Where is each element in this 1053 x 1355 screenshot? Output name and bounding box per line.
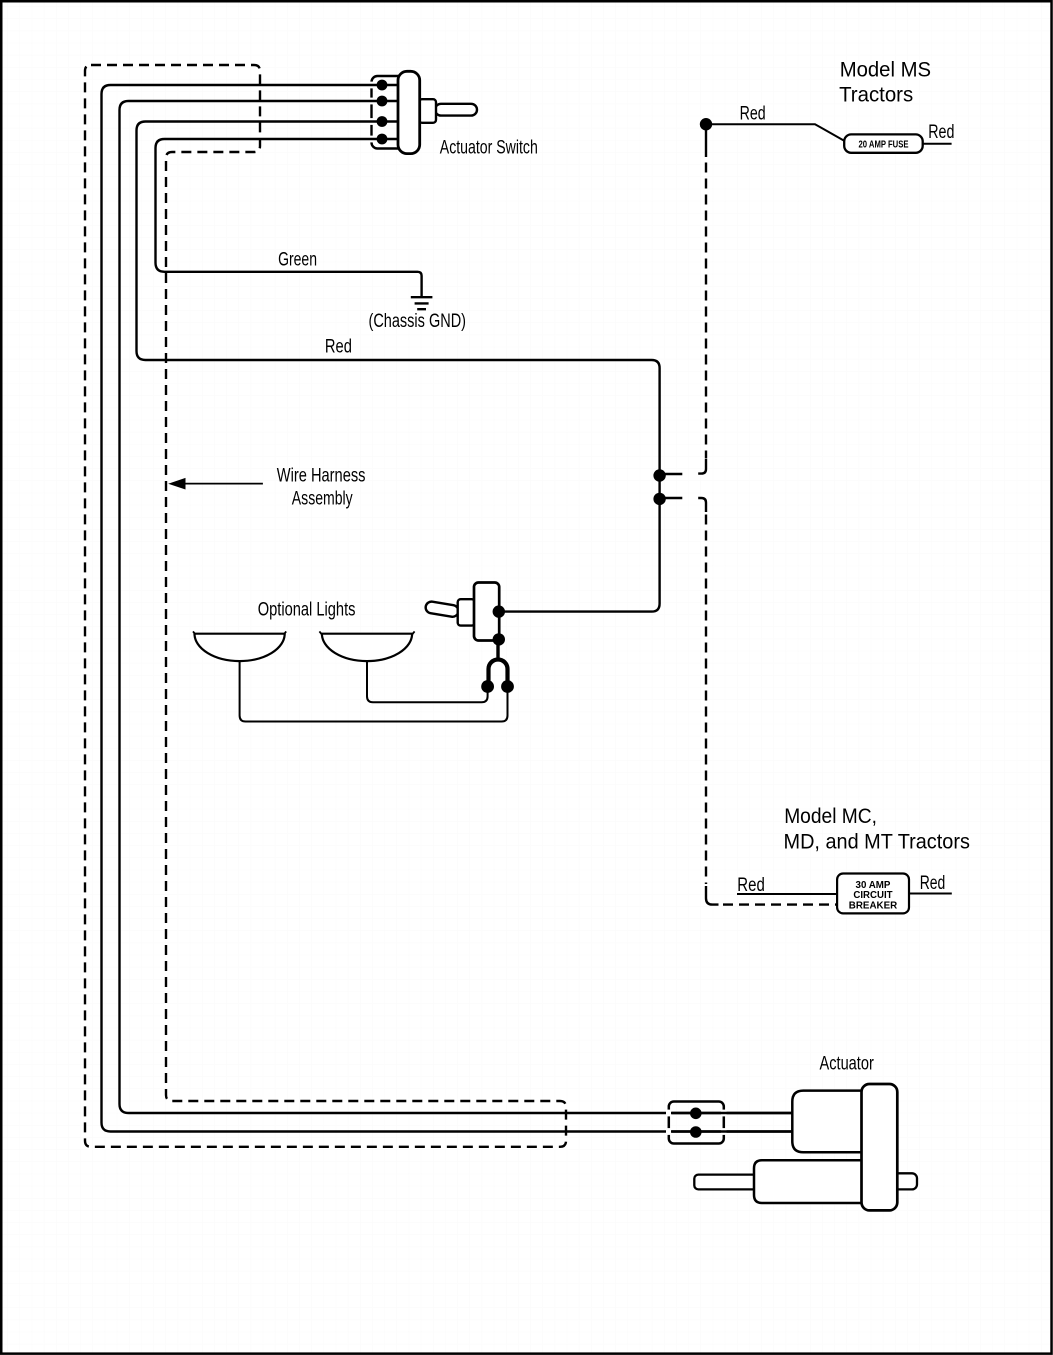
actuator M1 motor housing bbox=[792, 1091, 866, 1153]
connector J3 lower pin dot bbox=[690, 1126, 702, 1138]
svg-text:Red: Red bbox=[920, 873, 946, 894]
svg-text:Assembly: Assembly bbox=[292, 489, 353, 510]
wire stem from S2 lower terminal to connector J2 bbox=[496, 644, 499, 660]
toggle switch S2 bushing bbox=[458, 599, 475, 625]
wire right of fuse F1 bbox=[923, 143, 952, 145]
wire Red left of breaker CB1 bbox=[737, 893, 837, 895]
actuator M1 extension rod bbox=[694, 1175, 759, 1190]
toggle switch S2 body bbox=[474, 583, 499, 641]
actuator switch S1 lever bbox=[435, 104, 477, 116]
label: Model MC, MD, and MT Tractors bbox=[784, 804, 970, 854]
connector J1 pin 3 dot bbox=[377, 116, 388, 127]
connector J1 pin 2 dot bbox=[377, 96, 388, 107]
dashed Model MC branch wire: lower vertical segment bbox=[705, 515, 707, 885]
optional light lamp L1 bbox=[193, 631, 286, 661]
dashed Model MC branch wire: corner foot from node B stub bbox=[698, 498, 706, 512]
node C: Model MS tap junction dot bbox=[700, 118, 712, 130]
wire harness assembly pointer arrow bbox=[168, 478, 263, 490]
actuator switch S1 body bbox=[398, 71, 420, 153]
connector J3 upper pin dot bbox=[690, 1108, 702, 1120]
svg-text:Optional Lights: Optional Lights bbox=[258, 600, 356, 621]
wire harness assembly dashed boundary outline bbox=[85, 65, 566, 1147]
wire W1: S1 pin 1 to actuator lower lead bbox=[102, 85, 793, 1132]
node B junction dot bbox=[653, 493, 665, 505]
stub wire from node A to Model MS branch bbox=[660, 473, 683, 475]
fuse F1 body bbox=[844, 134, 923, 152]
toggle switch S2 upper terminal dot bbox=[493, 605, 505, 617]
optional light lamp L2 bbox=[319, 631, 414, 661]
actuator connector J3 housing bbox=[666, 1102, 727, 1144]
wire from lamp L1 to connector J2 right pin bbox=[240, 661, 508, 721]
circuit breaker CB1 body bbox=[837, 874, 909, 914]
dashed Model MS branch wire: upper vertical segment bbox=[705, 163, 707, 459]
connector J1 pin 1 dot bbox=[377, 80, 388, 91]
connector J2 left pin dot bbox=[481, 680, 494, 693]
actuator M1 rear stub bbox=[890, 1173, 917, 1189]
svg-text:Red: Red bbox=[740, 104, 766, 125]
svg-text:Actuator Switch: Actuator Switch bbox=[440, 137, 538, 158]
wire W2: S1 pin 2 to actuator upper lead bbox=[120, 101, 793, 1113]
actuator M1 end block bbox=[862, 1084, 898, 1210]
wire from lamp L2 to connector J2 left pin bbox=[367, 661, 488, 702]
dashed Model MC branch wire: corner to breaker bbox=[706, 886, 719, 905]
svg-text:BREAKER: BREAKER bbox=[849, 899, 898, 911]
svg-text:Actuator: Actuator bbox=[820, 1053, 875, 1074]
connector J1 pin 4 dot bbox=[377, 134, 388, 145]
wire from node C to fuse F1 bbox=[706, 124, 846, 141]
two-pin connector J2 shell bbox=[489, 660, 508, 688]
dashed Model MS branch wire: corner foot to node A stub bbox=[698, 459, 706, 474]
wire Red right of breaker CB1 bbox=[909, 893, 952, 895]
svg-text:MD, and MT Tractors: MD, and MT Tractors bbox=[784, 830, 970, 854]
svg-text:Red: Red bbox=[325, 337, 352, 358]
label: Wire Harness Assembly bbox=[277, 466, 366, 510]
toggle switch S2 lower terminal dot bbox=[493, 633, 505, 645]
svg-text:Model MC,: Model MC, bbox=[784, 804, 877, 828]
stub wire from node B to Model MC branch bbox=[660, 497, 683, 499]
svg-text:Tractors: Tractors bbox=[839, 82, 913, 106]
svg-text:Wire Harness: Wire Harness bbox=[277, 466, 366, 487]
svg-text:(Chassis GND): (Chassis GND) bbox=[369, 311, 467, 332]
connector J1 housing at actuator switch S1 bbox=[369, 76, 405, 149]
wire W3 Red: S1 pin 3 to toggle switch S2 bbox=[137, 122, 660, 612]
chassis ground symbol bbox=[411, 297, 433, 309]
dashed Model MS branch wire: solid start below node C bbox=[705, 124, 707, 157]
wire through J3 upper to actuator M1 bbox=[671, 1112, 792, 1114]
svg-text:Green: Green bbox=[278, 250, 317, 271]
svg-text:Red: Red bbox=[928, 122, 954, 143]
dashed Model MC branch wire: horizontal segment to breaker CB1 bbox=[723, 903, 837, 905]
connector J2 right pin dot bbox=[501, 680, 514, 693]
actuator switch S1 bushing bbox=[419, 99, 436, 123]
wire through J3 lower to actuator M1 bbox=[671, 1130, 792, 1132]
svg-text:20 AMP FUSE: 20 AMP FUSE bbox=[859, 139, 909, 150]
svg-text:Red: Red bbox=[737, 875, 765, 896]
label: Model MS Tractors bbox=[839, 58, 931, 107]
actuator M1 cylinder bbox=[754, 1160, 866, 1203]
toggle switch S2 lever bbox=[425, 601, 459, 618]
wire W4 Green: S1 pin 4 to chassis ground bbox=[156, 139, 422, 297]
svg-text:Model MS: Model MS bbox=[840, 58, 931, 82]
breaker CB1 value label 30 AMP CIRCUIT BREAKER bbox=[849, 879, 898, 912]
node A junction dot bbox=[653, 469, 665, 481]
